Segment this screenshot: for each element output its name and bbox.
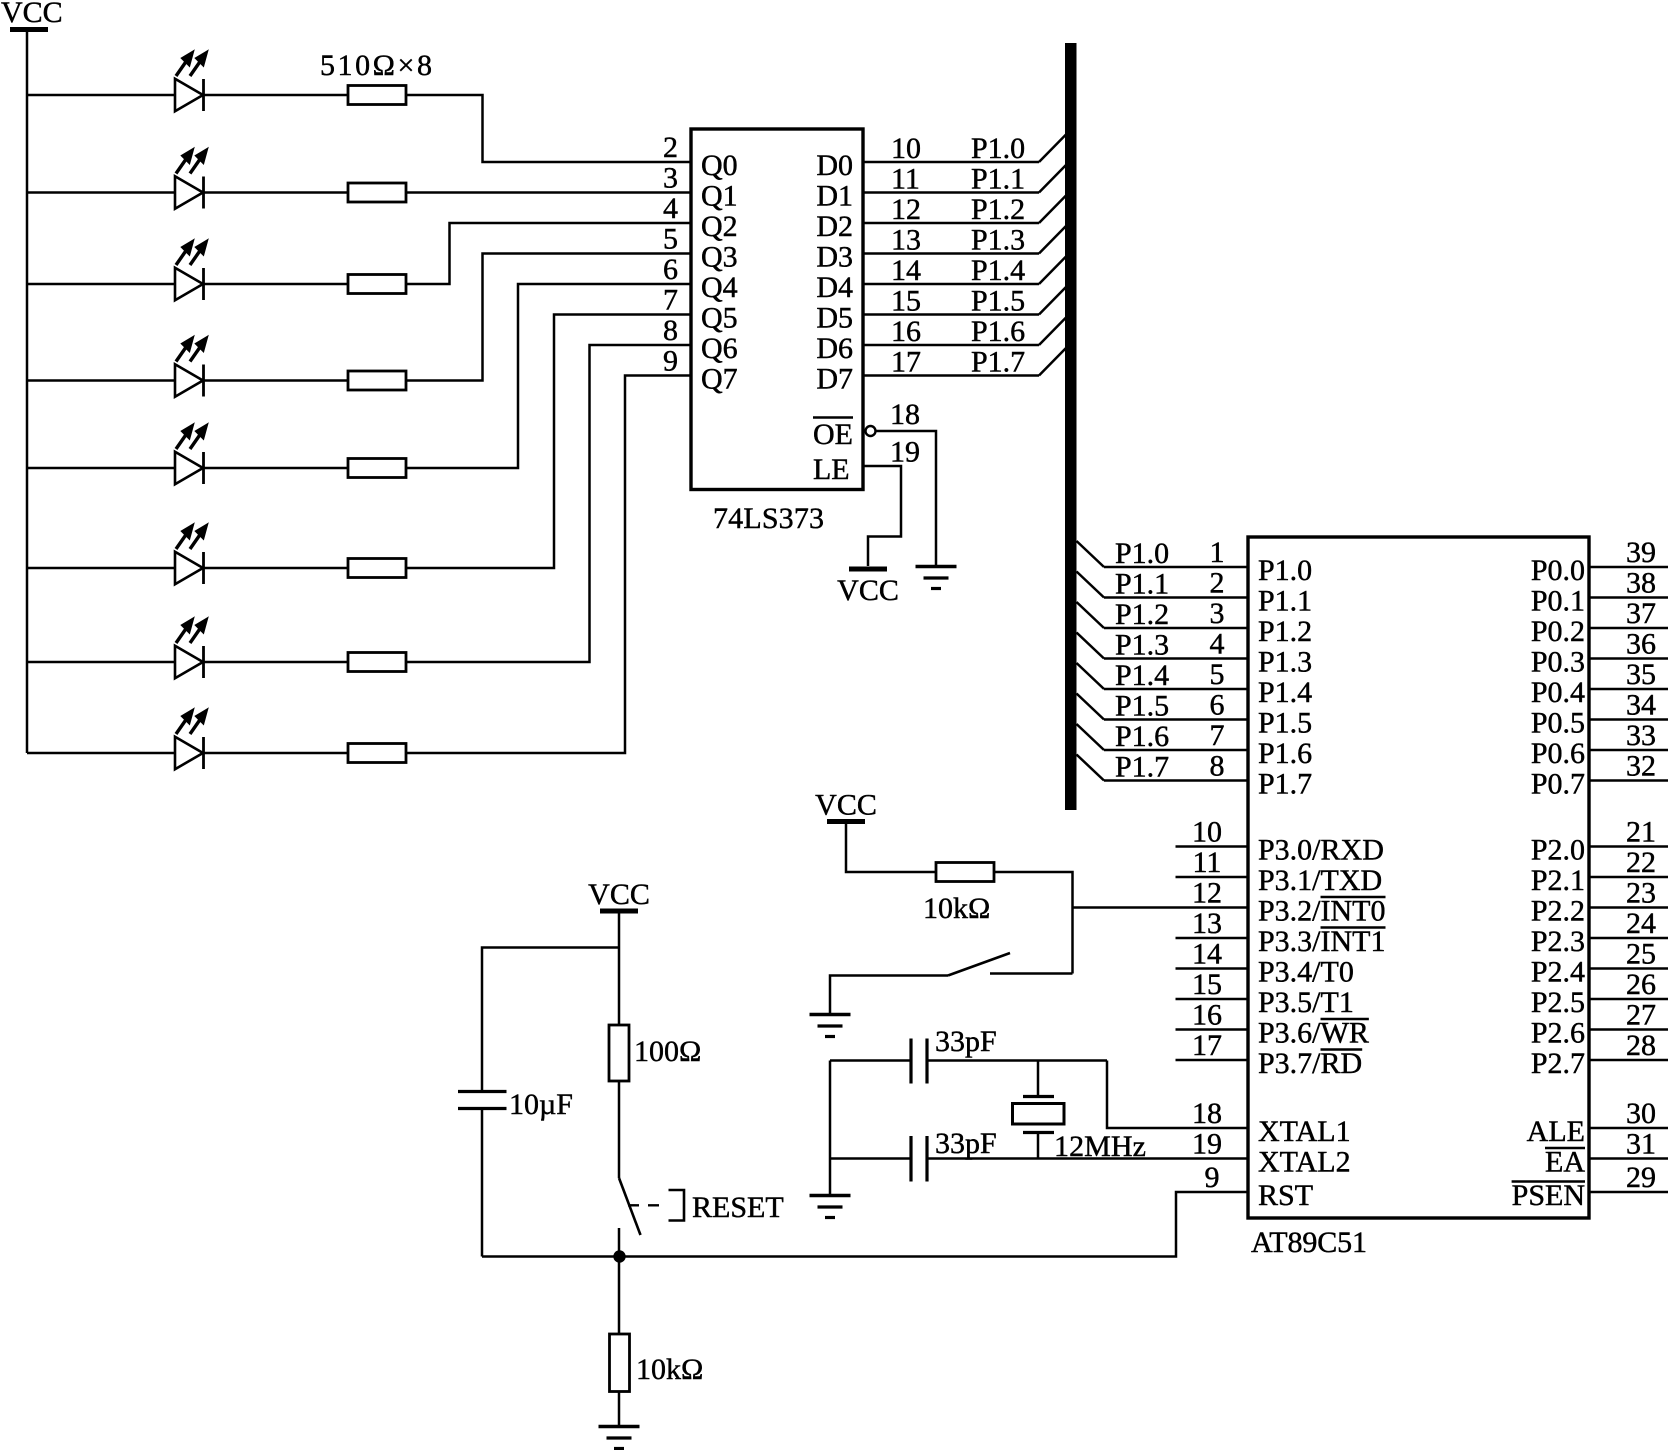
AT89C51 pin number 6: [1210, 689, 1225, 722]
svg-text:P0.6: P0.6: [1531, 737, 1585, 770]
svg-text:P1.3: P1.3: [1258, 646, 1312, 679]
svg-text:OE: OE: [813, 418, 853, 451]
svg-text:RESET: RESET: [692, 1191, 784, 1224]
resistor R11 10kΩ pull-up: [936, 863, 994, 882]
AT89C51 pin number 39: [1626, 536, 1656, 569]
wire AT89C51 pin 32 stub: [1589, 779, 1668, 782]
svg-text:13: 13: [1192, 907, 1222, 940]
svg-text:P1.6: P1.6: [1115, 720, 1169, 753]
svg-text:4: 4: [1210, 628, 1225, 661]
AT89C51 pin number 24: [1626, 907, 1656, 940]
svg-text:P0.7: P0.7: [1531, 768, 1585, 801]
wire rail to LED D4: [27, 379, 175, 382]
svg-text:P1.5: P1.5: [971, 285, 1025, 318]
wire rail to C2: [830, 1157, 911, 1160]
svg-text:15: 15: [891, 285, 921, 318]
svg-text:17: 17: [1192, 1029, 1222, 1062]
switch S1 actuator dashed link: [628, 1204, 668, 1206]
AT89C51 pin number 3: [1210, 597, 1225, 630]
wire AT89C51 pin 35 stub: [1589, 688, 1668, 691]
svg-text:9: 9: [663, 345, 678, 378]
wire bus to AT89C51 P1.1: [1077, 572, 1249, 598]
svg-text:23: 23: [1626, 877, 1656, 910]
wire AT89C51 pin 16 stub: [1176, 1028, 1249, 1031]
svg-text:P3.0/RXD: P3.0/RXD: [1258, 834, 1384, 867]
label 100Ω: [634, 1035, 701, 1068]
AT89C51 pin name RST: [1258, 1179, 1313, 1212]
svg-text:P2.1: P2.1: [1531, 864, 1585, 897]
svg-text:14: 14: [891, 254, 921, 287]
net label P1.0 (MCU side): [1115, 537, 1169, 570]
svg-text:5: 5: [1210, 658, 1225, 691]
svg-text:33pF: 33pF: [935, 1025, 997, 1058]
svg-text:P1.5: P1.5: [1258, 707, 1312, 740]
resistor R6: [348, 559, 406, 578]
svg-text:31: 31: [1626, 1128, 1656, 1161]
svg-text:14: 14: [1192, 938, 1222, 971]
AT89C51 pin name ALE: [1527, 1115, 1585, 1148]
svg-text:P1.0: P1.0: [1258, 554, 1312, 587]
svg-text:15: 15: [1192, 968, 1222, 1001]
AT89C51 pin number 33: [1626, 719, 1656, 752]
net label P1.7 (latch side): [971, 346, 1025, 379]
AT89C51 pin number 26: [1626, 968, 1656, 1001]
svg-text:39: 39: [1626, 536, 1656, 569]
wire AT89C51 pin 25 stub: [1589, 967, 1668, 970]
AT89C51 pin number 15: [1192, 968, 1222, 1001]
svg-text:P2.6: P2.6: [1531, 1017, 1585, 1050]
svg-text:3: 3: [663, 162, 678, 195]
AT89C51 pin name PSEN: [1512, 1179, 1585, 1212]
wire resistor R3 to 74LS373 pin 4: [406, 223, 691, 284]
wire rail to LED D3: [27, 283, 175, 286]
svg-text:P2.5: P2.5: [1531, 986, 1585, 1019]
svg-text:P1.2: P1.2: [971, 193, 1025, 226]
svg-text:6: 6: [663, 253, 678, 286]
svg-text:12MHz: 12MHz: [1054, 1130, 1146, 1163]
svg-text:16: 16: [1192, 999, 1222, 1032]
svg-text:VCC: VCC: [588, 878, 650, 911]
svg-text:EA: EA: [1545, 1146, 1585, 1179]
inversion bubble OE pin 18: [866, 426, 876, 436]
svg-text:26: 26: [1626, 968, 1656, 1001]
svg-text:22: 22: [1626, 846, 1656, 879]
LED D1: [175, 51, 208, 111]
wire pull-up to key: [994, 872, 1073, 974]
svg-text:P1.6: P1.6: [971, 315, 1025, 348]
label RESET: [692, 1191, 784, 1224]
AT89C51 pin number 21: [1626, 816, 1656, 849]
wire LED D7 to resistor R7: [204, 661, 349, 664]
74LS373 D0-D7 pin names: [816, 149, 853, 396]
svg-text:35: 35: [1626, 658, 1656, 691]
wire rail to LED D2: [27, 191, 175, 194]
svg-text:3: 3: [1210, 597, 1225, 630]
AT89C51 pin number 13: [1192, 907, 1222, 940]
ground at key: [810, 1015, 851, 1037]
svg-text:P1.4: P1.4: [1258, 676, 1312, 709]
label 74LS373: [713, 502, 824, 535]
svg-text:29: 29: [1626, 1161, 1656, 1194]
wire AT89C51 pin 10 stub: [1176, 845, 1249, 848]
AT89C51 pin name XTAL1: [1258, 1115, 1351, 1148]
wire resistor R6 to 74LS373 pin 7: [406, 315, 691, 569]
wire LED D3 to resistor R3: [204, 283, 349, 286]
power VCC at INT0 pull-up: [815, 789, 877, 822]
label 33pF (C2): [935, 1127, 997, 1160]
wire key to ground: [830, 976, 948, 1014]
capacitor C1 33pF plates: [911, 1039, 927, 1084]
net label P1.5 (MCU side): [1115, 690, 1169, 723]
svg-text:P1.2: P1.2: [1115, 598, 1169, 631]
wire XTAL1 pin 18: [1107, 1061, 1248, 1129]
switch S1 RESET blade: [619, 1178, 641, 1235]
svg-text:P1.7: P1.7: [1258, 768, 1312, 801]
wire AT89C51 pin 30 stub: [1589, 1127, 1668, 1130]
wire 74LS373 D0 to bus: [863, 135, 1066, 163]
LED D5: [175, 424, 208, 484]
wire 74LS373 D7 to bus: [863, 348, 1066, 376]
switch S2 key blade: [948, 953, 1010, 976]
net label P1.3 (MCU side): [1115, 629, 1169, 662]
label 10µF: [509, 1088, 573, 1121]
svg-text:Q1: Q1: [701, 180, 738, 213]
svg-text:7: 7: [663, 284, 678, 317]
wire AT89C51 pin 37 stub: [1589, 627, 1668, 630]
svg-text:11: 11: [891, 163, 920, 196]
svg-text:D5: D5: [816, 302, 853, 335]
wire AT89C51 pin 31 stub: [1589, 1157, 1668, 1160]
net label P1.2 (MCU side): [1115, 598, 1169, 631]
wire rail to LED D1: [27, 94, 175, 97]
74LS373 right pin numbers 10-17: [891, 132, 921, 379]
wire AT89C51 pin 21 stub: [1589, 845, 1668, 848]
AT89C51 pin number 11: [1193, 846, 1222, 879]
AT89C51 pin number 28: [1626, 1029, 1656, 1062]
svg-text:D7: D7: [816, 363, 853, 396]
svg-text:D3: D3: [816, 241, 853, 274]
LED D3: [175, 240, 208, 300]
resistor R5: [348, 459, 406, 478]
label AT89C51: [1251, 1226, 1367, 1259]
AT89C51 pin number 17: [1192, 1029, 1222, 1062]
AT89C51 P2.0-P2.7 pin names: [1531, 834, 1585, 1081]
label 10kΩ (reset): [636, 1353, 703, 1386]
svg-text:Q2: Q2: [701, 210, 738, 243]
wire LED D2 to resistor R2: [204, 191, 349, 194]
AT89C51 pin name EA: [1545, 1146, 1585, 1179]
svg-text:25: 25: [1626, 938, 1656, 971]
AT89C51 P0.0-P0.7 pin names: [1531, 554, 1585, 801]
svg-text:2: 2: [663, 131, 678, 164]
AT89C51 pin number 1: [1210, 536, 1225, 569]
svg-text:32: 32: [1626, 750, 1656, 783]
net label P1.1 (MCU side): [1115, 568, 1169, 601]
net label P1.1 (latch side): [971, 163, 1025, 196]
label 12MHz: [1054, 1130, 1146, 1163]
net label P1.4 (latch side): [971, 254, 1025, 287]
wire LED D4 to resistor R4: [204, 379, 349, 382]
svg-text:2: 2: [1210, 567, 1225, 600]
svg-text:18: 18: [890, 398, 920, 431]
net label P1.6 (MCU side): [1115, 720, 1169, 753]
wire AT89C51 pin 38 stub: [1589, 596, 1668, 599]
svg-text:10: 10: [891, 132, 921, 165]
LED D7: [175, 618, 208, 678]
wire switch to junction: [618, 1228, 621, 1257]
svg-text:Q0: Q0: [701, 149, 738, 182]
wire 74LS373 D1 to bus: [863, 165, 1066, 193]
svg-text:P0.3: P0.3: [1531, 646, 1585, 679]
svg-text:D0: D0: [816, 149, 853, 182]
label 33pF (C1): [935, 1025, 997, 1058]
svg-text:19: 19: [890, 436, 920, 469]
ground at crystal rail: [810, 1196, 851, 1218]
svg-text:P3.3/INT1: P3.3/INT1: [1258, 925, 1386, 958]
svg-text:P1.3: P1.3: [1115, 629, 1169, 662]
switch S1 actuator bracket: [669, 1190, 685, 1221]
wire 74LS373 D4 to bus: [863, 257, 1066, 285]
AT89C51 pin number 23: [1626, 877, 1656, 910]
svg-text:P1.7: P1.7: [1115, 751, 1169, 784]
svg-text:P1.5: P1.5: [1115, 690, 1169, 723]
capacitor C2 33pF plates: [911, 1136, 927, 1182]
wire AT89C51 pin 27 stub: [1589, 1028, 1668, 1031]
svg-text:P1.1: P1.1: [1115, 568, 1169, 601]
ground at OE: [916, 567, 957, 589]
AT89C51 pin number 8: [1210, 750, 1225, 783]
svg-text:LE: LE: [813, 453, 850, 486]
svg-text:10kΩ: 10kΩ: [923, 892, 990, 925]
svg-text:P0.5: P0.5: [1531, 707, 1585, 740]
wire rail to LED D8: [27, 752, 175, 755]
wire VCC rail vertical: [26, 32, 29, 753]
svg-text:9: 9: [1205, 1161, 1220, 1194]
power VCC net, LED anode rail: [1, 0, 63, 30]
wire AT89C51 pin 39 stub: [1589, 566, 1668, 569]
wire 100Ω to reset switch: [618, 1081, 621, 1178]
wire rail to LED D7: [27, 661, 175, 664]
AT89C51 pin number 38: [1626, 567, 1656, 600]
svg-text:100Ω: 100Ω: [634, 1035, 701, 1068]
svg-text:P3.6/WR: P3.6/WR: [1258, 1017, 1369, 1050]
svg-text:P2.2: P2.2: [1531, 895, 1585, 928]
svg-text:VCC: VCC: [1, 0, 63, 29]
net label P1.3 (latch side): [971, 224, 1025, 257]
wire AT89C51 pin 11 stub: [1176, 876, 1249, 879]
wire resistor R8 to 74LS373 pin 9: [406, 376, 691, 754]
svg-text:ALE: ALE: [1527, 1115, 1585, 1148]
IC U2 AT89C51 body: [1248, 537, 1589, 1218]
wire resistor R2 to 74LS373 pin 3: [406, 191, 691, 194]
svg-text:33: 33: [1626, 719, 1656, 752]
svg-text:30: 30: [1626, 1097, 1656, 1130]
svg-text:D2: D2: [816, 210, 853, 243]
wire rail to LED D6: [27, 567, 175, 570]
svg-text:12: 12: [1192, 877, 1222, 910]
wire bus to AT89C51 P1.6: [1077, 724, 1249, 750]
svg-text:4: 4: [663, 192, 678, 225]
node RST junction: [613, 1250, 625, 1262]
svg-text:21: 21: [1626, 816, 1656, 849]
AT89C51 pin number 36: [1626, 628, 1656, 661]
svg-text:10: 10: [1192, 816, 1222, 849]
AT89C51 pin number 30: [1626, 1097, 1656, 1130]
svg-text:27: 27: [1626, 999, 1656, 1032]
AT89C51 pin number 25: [1626, 938, 1656, 971]
svg-text:P2.4: P2.4: [1531, 956, 1585, 989]
wire branch to 10µF capacitor: [482, 948, 619, 1091]
wire VCC to 100Ω resistor: [618, 914, 621, 1026]
AT89C51 pin number 14: [1192, 938, 1222, 971]
svg-text:P1.2: P1.2: [1258, 615, 1312, 648]
wire C1 to XTAL1 net: [927, 1059, 1107, 1062]
AT89C51 pin number 34: [1626, 689, 1656, 722]
svg-text:Q7: Q7: [701, 363, 738, 396]
resistor R1: [348, 86, 406, 105]
74LS373 Q0-Q7 pin names: [701, 149, 738, 396]
wire AT89C51 pin 22 stub: [1589, 876, 1668, 879]
svg-text:P2.7: P2.7: [1531, 1047, 1585, 1080]
label 10kΩ (pull-up): [923, 892, 990, 925]
svg-text:P1.1: P1.1: [971, 163, 1025, 196]
wire AT89C51 pin 29 stub: [1589, 1191, 1668, 1194]
74LS373 pin name LE: [813, 453, 850, 486]
wire XTAL2 pin 19: [927, 1157, 1248, 1160]
wire rail to LED D5: [27, 467, 175, 470]
wire bus to AT89C51 P1.3: [1077, 633, 1249, 659]
wire AT89C51 pin 26 stub: [1589, 998, 1668, 1001]
svg-text:28: 28: [1626, 1029, 1656, 1062]
wire AT89C51 pin 23 stub: [1589, 906, 1668, 909]
svg-text:P2.3: P2.3: [1531, 925, 1585, 958]
svg-text:16: 16: [891, 315, 921, 348]
net label P1.4 (MCU side): [1115, 659, 1169, 692]
wire LED D5 to resistor R5: [204, 467, 349, 470]
svg-text:8: 8: [663, 314, 678, 347]
AT89C51 P3 pin names: [1258, 834, 1386, 1081]
power VCC at LE pin 19: [837, 569, 899, 607]
svg-text:VCC: VCC: [837, 574, 899, 607]
svg-text:P1.3: P1.3: [971, 224, 1025, 257]
AT89C51 pin number 18: [1192, 1097, 1222, 1130]
svg-text:19: 19: [1192, 1128, 1222, 1161]
svg-text:P3.7/RD: P3.7/RD: [1258, 1047, 1362, 1080]
svg-text:6: 6: [1210, 689, 1225, 722]
wire resistor R1 to 74LS373 pin 2: [406, 95, 691, 162]
svg-text:34: 34: [1626, 689, 1656, 722]
AT89C51 pin number 35: [1626, 658, 1656, 691]
resistor R3: [348, 275, 406, 294]
AT89C51 pin number 4: [1210, 628, 1225, 661]
wire 74LS373 D6 to bus: [863, 318, 1066, 346]
wire 74LS373 D5 to bus: [863, 287, 1066, 315]
svg-text:D6: D6: [816, 332, 853, 365]
svg-text:AT89C51: AT89C51: [1251, 1226, 1367, 1259]
74LS373 pin number 19: [890, 436, 920, 469]
svg-text:P3.4/T0: P3.4/T0: [1258, 956, 1354, 989]
svg-text:11: 11: [1193, 846, 1222, 879]
svg-text:XTAL2: XTAL2: [1258, 1146, 1351, 1179]
AT89C51 pin number 2: [1210, 567, 1225, 600]
wire LE pin 19 to VCC: [863, 466, 901, 566]
svg-text:P1.4: P1.4: [971, 254, 1025, 287]
LED D2: [175, 149, 208, 209]
svg-text:Q6: Q6: [701, 332, 738, 365]
resistor R4: [348, 371, 406, 390]
LED D8: [175, 709, 208, 769]
svg-text:P3.2/INT0: P3.2/INT0: [1258, 895, 1386, 928]
net label P1.5 (latch side): [971, 285, 1025, 318]
svg-text:VCC: VCC: [815, 789, 877, 822]
wire LED D1 to resistor R1: [204, 94, 349, 97]
wire rail to C1: [830, 1059, 911, 1062]
svg-text:P1.0: P1.0: [1115, 537, 1169, 570]
wire resistor R7 to 74LS373 pin 8: [406, 345, 691, 662]
label 510Ω×8 resistor value: [320, 49, 432, 82]
svg-text:7: 7: [1210, 719, 1225, 752]
svg-text:37: 37: [1626, 597, 1656, 630]
svg-text:1: 1: [1210, 536, 1225, 569]
AT89C51 pin number 5: [1210, 658, 1225, 691]
net label P1.2 (latch side): [971, 193, 1025, 226]
74LS373 pin number 18: [890, 398, 920, 431]
svg-text:P1.4: P1.4: [1115, 659, 1169, 692]
svg-text:36: 36: [1626, 628, 1656, 661]
capacitor C3 10µF plates: [458, 1092, 507, 1109]
svg-text:13: 13: [891, 224, 921, 257]
svg-text:12: 12: [891, 193, 921, 226]
IC U1 74LS373 body: [691, 129, 863, 490]
svg-text:74LS373: 74LS373: [713, 502, 824, 535]
wire junction to 10kΩ: [618, 1257, 621, 1335]
svg-text:10µF: 10µF: [509, 1088, 573, 1121]
switch S2 key fixed wire: [990, 972, 1073, 975]
svg-text:8: 8: [1210, 750, 1225, 783]
wire INT0 net to AT89C51 pin 12: [1073, 906, 1249, 909]
wire RST pin 9: [482, 1192, 1248, 1257]
wire bus to AT89C51 P1.2: [1077, 602, 1249, 628]
AT89C51 pin number 31: [1626, 1128, 1656, 1161]
AT89C51 pin number 12: [1192, 877, 1222, 910]
wire bus to AT89C51 P1.5: [1077, 694, 1249, 720]
AT89C51 pin number 10: [1192, 816, 1222, 849]
74LS373 left pin numbers 2-9: [663, 131, 678, 378]
LED D6: [175, 524, 208, 584]
power VCC at reset divider: [588, 878, 650, 911]
wire AT89C51 pin 24 stub: [1589, 937, 1668, 940]
svg-text:P0.4: P0.4: [1531, 676, 1585, 709]
wire bus to AT89C51 P1.7: [1077, 755, 1249, 781]
svg-text:P0.1: P0.1: [1531, 585, 1585, 618]
svg-text:P3.5/T1: P3.5/T1: [1258, 986, 1354, 1019]
svg-text:P1.7: P1.7: [971, 346, 1025, 379]
svg-text:38: 38: [1626, 567, 1656, 600]
net label P1.6 (latch side): [971, 315, 1025, 348]
net label P1.7 (MCU side): [1115, 751, 1169, 784]
svg-text:10kΩ: 10kΩ: [636, 1353, 703, 1386]
svg-text:P0.2: P0.2: [1531, 615, 1585, 648]
wire 74LS373 D2 to bus: [863, 196, 1066, 224]
svg-text:P3.1/TXD: P3.1/TXD: [1258, 864, 1382, 897]
wire OE pin 18 to ground: [876, 431, 937, 565]
svg-text:D4: D4: [816, 271, 853, 304]
AT89C51 pin number 29: [1626, 1161, 1656, 1194]
AT89C51 pin number 9: [1205, 1161, 1220, 1194]
svg-text:RST: RST: [1258, 1179, 1313, 1212]
AT89C51 P1.0-P1.7 pin names: [1258, 554, 1312, 801]
svg-text:P1.0: P1.0: [971, 132, 1025, 165]
